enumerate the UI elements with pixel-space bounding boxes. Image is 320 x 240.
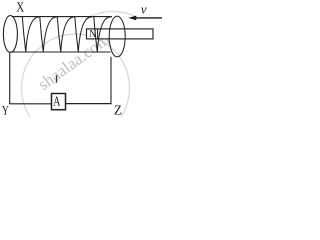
watermark top arc [85,11,135,19]
svg-text:A: A [53,93,60,109]
watermark circle [22,34,130,142]
solenoid right end ellipse [109,16,125,57]
label N (north pole) [89,28,96,40]
svg-text:Z: Z [114,102,122,117]
svg-text:v: v [141,1,147,16]
svg-text:I: I [55,74,59,86]
watermark text shaalaa.com [34,30,113,94]
node Y [2,105,9,118]
svg-text:X: X [16,0,24,15]
label v [141,1,147,16]
wire right vertical [110,57,112,104]
coil turn 4 [75,17,93,52]
label I (current) [55,74,59,86]
solenoid left end ellipse [3,16,17,53]
wire bottom right [66,103,112,105]
svg-text:Y: Y [2,105,9,117]
velocity arrow [128,16,162,21]
solenoid top line [12,16,113,18]
coil turn 2 [40,17,58,52]
wire bottom left [9,103,51,105]
coil turn 5 [94,17,112,52]
coil turn 3 [57,17,75,52]
magnet pole divider [97,29,99,39]
label X [16,0,24,15]
solenoid bottom line [10,51,111,53]
ammeter A [52,93,66,110]
magnet bar [87,29,154,39]
node Z [114,102,122,117]
wire left vertical [9,52,11,104]
coil turn 1 [22,17,40,52]
